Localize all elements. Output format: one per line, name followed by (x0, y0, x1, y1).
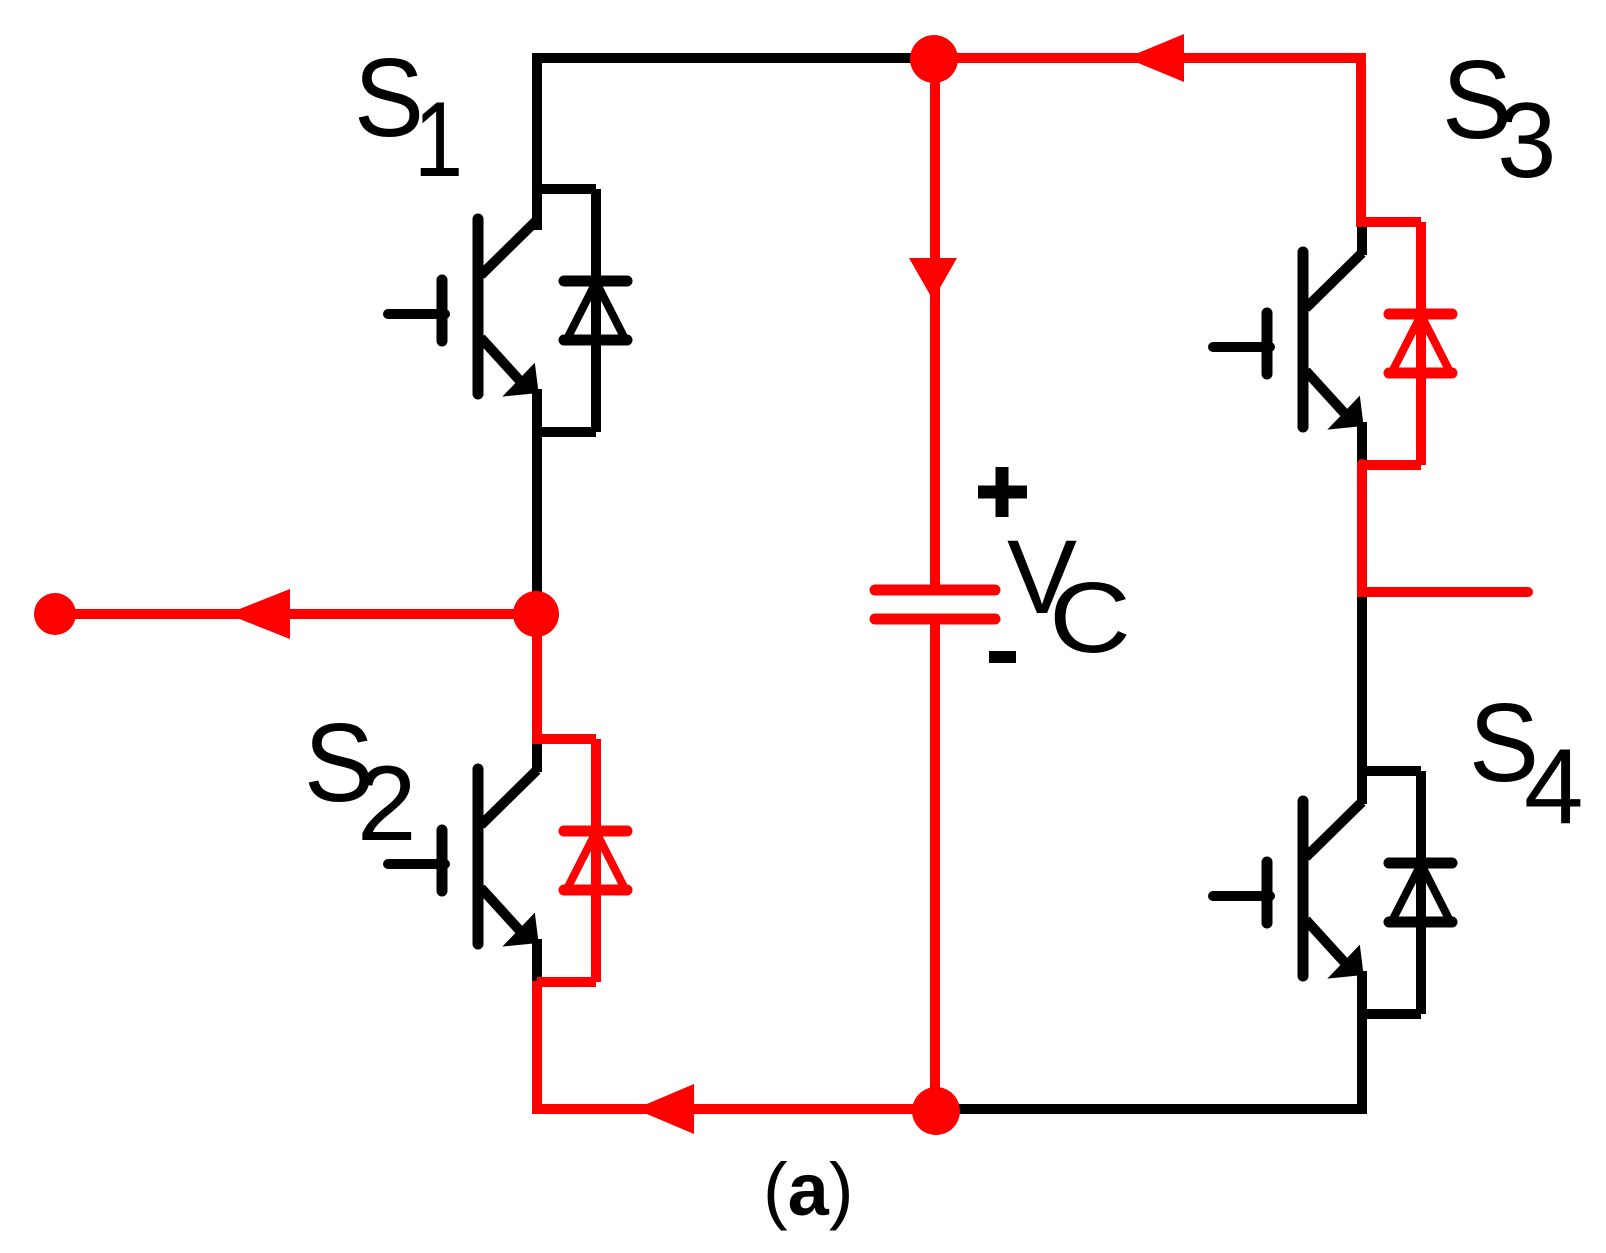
svg-text:4: 4 (1524, 726, 1584, 846)
svg-text:C: C (1049, 562, 1131, 674)
svg-text:3: 3 (1497, 80, 1557, 200)
svg-text:(a): (a) (763, 1148, 853, 1231)
svg-text:2: 2 (357, 743, 417, 863)
svg-text:1: 1 (414, 79, 463, 199)
